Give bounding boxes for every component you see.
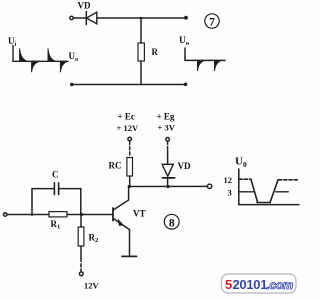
node: junction top of R xyxy=(140,17,143,20)
svg-text:8: 8 xyxy=(169,217,175,229)
wire: Uo negative spike 1 xyxy=(198,60,205,71)
wire: up from junction xyxy=(31,189,33,215)
wire: dashed 12V level left xyxy=(239,178,251,180)
wire: Uo negative spike 2 xyxy=(215,60,222,71)
svg-text:+ Eg: + Eg xyxy=(157,112,175,122)
svg-text:3: 3 xyxy=(228,188,232,198)
watermark 520101.com xyxy=(222,274,297,293)
wire: falling edge xyxy=(251,179,258,202)
wire: dashed lead from Eg xyxy=(167,142,169,151)
wire xyxy=(32,188,54,190)
resistor R1 xyxy=(49,212,67,217)
capacitor C xyxy=(54,183,58,195)
wire: Ui positive spike 1 xyxy=(20,48,28,61)
node: bottom left xyxy=(70,83,74,87)
wire: bottom rail circuit 7 xyxy=(72,84,186,86)
wire xyxy=(59,188,80,190)
label 8 (circled) xyxy=(164,214,179,229)
node: Uo waveform axes xyxy=(185,48,225,60)
wire: 3V level right xyxy=(276,191,289,193)
wire: bottom level xyxy=(257,202,270,204)
svg-text:R: R xyxy=(152,47,159,57)
wire: Ui negative spike 1 xyxy=(32,61,40,72)
wire xyxy=(7,214,49,216)
svg-text:.com: .com xyxy=(267,278,294,292)
node: U0 graph axes xyxy=(239,169,299,205)
node: Ui waveform axes xyxy=(13,46,68,62)
node: input terminal of circuit 7 xyxy=(70,16,73,19)
wire xyxy=(140,18,142,43)
wire xyxy=(167,178,169,187)
wire: 3V level left xyxy=(239,191,253,193)
resistor R2 xyxy=(78,227,84,246)
node: base node xyxy=(80,213,83,216)
wire: Ui positive spike 2 xyxy=(48,48,56,61)
resistor R xyxy=(138,43,144,61)
wire: output rail to terminal xyxy=(129,185,207,187)
wire xyxy=(129,176,131,187)
wire: down to base node xyxy=(80,189,82,215)
node: junction capacitor branch xyxy=(31,213,34,216)
svg-text:VD: VD xyxy=(178,161,191,171)
node: bias supply terminal xyxy=(79,272,83,276)
wire: dashed lead to -12V xyxy=(80,259,82,272)
wire: down to R2 xyxy=(80,215,82,228)
svg-text:12V: 12V xyxy=(84,281,100,291)
svg-text:+ 3V: + 3V xyxy=(158,123,176,133)
svg-text:+ Ec: + Ec xyxy=(118,112,135,122)
svg-text:5: 5 xyxy=(225,277,232,292)
wire xyxy=(140,61,142,85)
node: output terminal circuit 8 xyxy=(207,184,211,188)
svg-text:12: 12 xyxy=(224,175,233,185)
wire xyxy=(167,151,169,165)
node: diode junction xyxy=(166,185,169,188)
svg-text:20101: 20101 xyxy=(233,277,268,292)
wire xyxy=(67,214,113,216)
transistor VT xyxy=(113,187,130,256)
svg-text:VT: VT xyxy=(133,209,146,219)
wire: dashed lead from Ec xyxy=(129,142,131,157)
ground xyxy=(122,255,137,257)
node: output terminal top right xyxy=(184,16,188,20)
wire: dashed 12V level right xyxy=(279,179,299,181)
wire xyxy=(73,17,86,19)
resistor RC xyxy=(127,158,133,177)
node: input terminal circuit 8 xyxy=(3,213,6,216)
svg-text:VD: VD xyxy=(78,1,91,11)
wire: rising edge xyxy=(270,180,278,203)
node: Ec supply terminal xyxy=(128,137,132,141)
svg-text:+ 12V: + 12V xyxy=(117,123,139,133)
svg-text:7: 7 xyxy=(209,17,215,29)
label 7 (circled) xyxy=(205,14,219,28)
wire: Ui negative spike 2 xyxy=(60,61,67,72)
wire xyxy=(80,246,82,259)
diode VD (circuit 8) xyxy=(162,164,175,178)
svg-text:RC: RC xyxy=(109,161,122,171)
wire xyxy=(97,17,186,19)
node: collector junction xyxy=(128,185,131,188)
node: Eg supply terminal xyxy=(166,138,170,142)
diode VD (circuit 7) xyxy=(86,12,97,25)
svg-text:C: C xyxy=(52,170,59,180)
node: bottom right xyxy=(184,83,188,87)
